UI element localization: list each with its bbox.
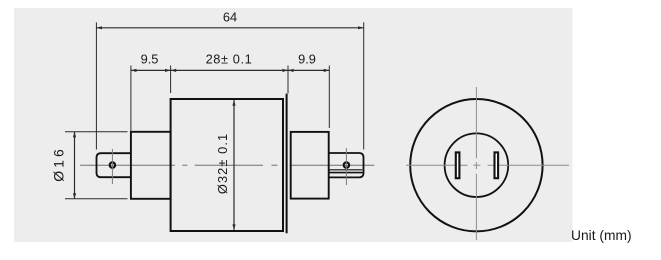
dimension Ø32±0.1 line — [232, 100, 235, 230]
svg-text:Ø32± 0.1: Ø32± 0.1 — [215, 133, 230, 194]
dimension row 2 extension lines — [130, 66, 132, 131]
left hub block — [131, 132, 171, 199]
svg-text:64: 64 — [223, 9, 237, 24]
dimension 64 line — [96, 26, 363, 29]
end view outer circle — [410, 99, 542, 231]
right hub block — [291, 132, 329, 199]
svg-text:Ø16: Ø16 — [50, 146, 66, 181]
dimension 9.9 line — [288, 69, 329, 72]
left terminal tab T1 — [97, 153, 131, 177]
main cylinder body — [171, 99, 283, 231]
end view right terminal slot — [495, 152, 499, 178]
right terminal tab T2 — [329, 153, 364, 177]
dimension 9.5 line — [131, 69, 171, 72]
left tab vertical centerline — [111, 149, 113, 184]
end view inner circle — [445, 133, 509, 197]
dimension Ø16 extension lines — [65, 131, 128, 133]
svg-text:9.9: 9.9 — [298, 51, 316, 66]
ring flange line — [286, 94, 288, 234]
svg-text:9.5: 9.5 — [141, 51, 159, 66]
side view horizontal centerline — [80, 164, 374, 166]
end view vertical centerline — [475, 87, 477, 240]
right tab vertical centerline — [345, 148, 347, 185]
dimension 28±0.1 line — [171, 69, 288, 72]
svg-text:28± 0.1: 28± 0.1 — [206, 51, 253, 66]
dimension Ø16 line — [73, 132, 76, 199]
dimension 64 extension lines — [95, 22, 97, 149]
svg-text:Unit (mm): Unit (mm) — [571, 228, 632, 243]
end view left terminal slot — [456, 152, 460, 178]
left tab hole — [110, 162, 115, 167]
end view horizontal centerline — [406, 164, 569, 166]
right tab hole — [344, 162, 349, 167]
gray drawing panel — [14, 8, 573, 242]
